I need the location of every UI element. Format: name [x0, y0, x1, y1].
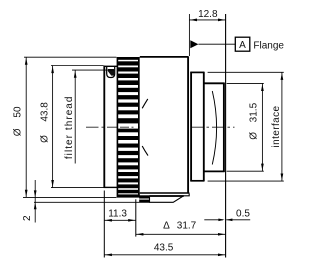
svg-text:12.8: 12.8 — [198, 9, 218, 20]
svg-text:A: A — [239, 40, 246, 51]
rear lens element arc — [212, 91, 216, 165]
body edge arc marks — [142, 99, 148, 156]
svg-text:Δ: Δ — [163, 221, 170, 232]
svg-text:50: 50 — [12, 106, 23, 118]
rear mount (interface) — [203, 72, 224, 182]
flange ring — [190, 72, 204, 182]
dimension diameter 50 — [12, 57, 116, 197]
svg-text:2: 2 — [22, 215, 33, 221]
centerline — [86, 126, 235, 128]
svg-text:Ø: Ø — [12, 128, 23, 136]
dimension delta 31.7 — [136, 199, 226, 236]
dimension diameter 43.8 — [40, 66, 104, 188]
dimension diameter 31.5 (interface bore) — [227, 83, 264, 171]
svg-text:Ø: Ø — [40, 135, 51, 143]
filter thread label — [64, 70, 114, 163]
main body — [140, 56, 190, 193]
datum A flange callout — [190, 37, 284, 51]
svg-text:31.7: 31.7 — [177, 221, 197, 232]
dimension 11.3 — [104, 191, 136, 258]
focus lock screw — [139, 195, 149, 202]
bottom tab / lock lever — [150, 193, 190, 202]
dimension 2 (bottom left) — [22, 180, 150, 223]
svg-text:43.5: 43.5 — [154, 243, 174, 254]
dimension 43.5 — [104, 243, 225, 256]
svg-text:43.8: 43.8 — [40, 102, 51, 122]
svg-text:0.5: 0.5 — [236, 208, 250, 219]
svg-text:31.5: 31.5 — [249, 102, 260, 122]
svg-text:filter thread: filter thread — [64, 95, 75, 159]
svg-text:Ø: Ø — [249, 132, 260, 140]
svg-text:11.3: 11.3 — [108, 208, 127, 219]
dimension 12.8 (top) — [189, 9, 225, 258]
svg-text:interface: interface — [271, 105, 282, 147]
dimension 0.5 — [204, 208, 250, 221]
interface width dimension — [208, 72, 284, 181]
knurled focus ring — [117, 57, 140, 198]
filter thread relief detail — [107, 67, 115, 78]
svg-text:Flange: Flange — [253, 40, 284, 51]
front barrel (filter thread section) — [104, 66, 118, 188]
